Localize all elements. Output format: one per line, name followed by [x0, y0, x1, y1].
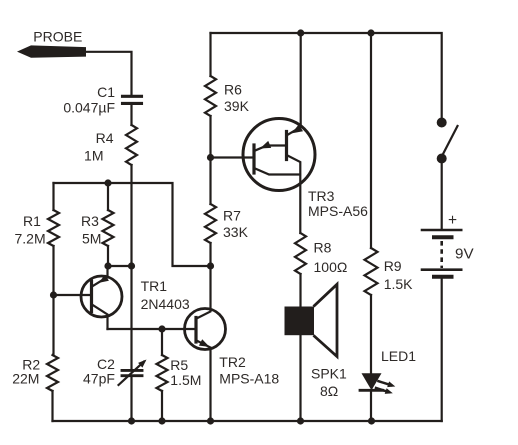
capacitor C2 arrow (variable) [119, 362, 145, 386]
resistor R5 [157, 355, 168, 391]
wire battery to ground rail [441, 279, 443, 421]
TR3 first emitter arrow [260, 141, 271, 149]
junction dot R4 bottom / C2 [128, 262, 135, 269]
svg-text:R9: R9 [384, 258, 402, 274]
wire R3 line [107, 183, 109, 266]
wire C1 to R4 [130, 105, 132, 125]
TR1 base bar [90, 281, 93, 312]
svg-text:47pF: 47pF [83, 370, 115, 386]
junction dot top rail TR3 [297, 29, 304, 36]
junction dot R3 bottom / TR1 emitter [104, 262, 111, 269]
resistor R9 [365, 248, 378, 295]
transistor TR2 body [185, 309, 226, 350]
svg-text:1.5M: 1.5M [170, 372, 201, 388]
junction dot R5 top [158, 325, 165, 332]
svg-text:R4: R4 [96, 130, 114, 146]
TR2 collector lead [197, 266, 211, 319]
LED1 light arrow 2 [376, 388, 389, 392]
TR1 collector lead [92, 305, 108, 330]
svg-text:1.5K: 1.5K [384, 276, 413, 292]
svg-text:5M: 5M [82, 231, 101, 247]
resistor R8 [295, 233, 306, 274]
resistor R6 [205, 76, 216, 116]
wire R4 down to node (crosses rail) [130, 165, 132, 266]
switch contact upper [437, 118, 447, 128]
TR3 first emitter to second base [254, 146, 285, 152]
junction dot ground LED [368, 417, 375, 424]
LED1 cathode bar [360, 389, 383, 392]
battery plate 2 (short) [434, 235, 452, 239]
junction dot R3 top [104, 179, 111, 186]
battery plate 3 (long) [422, 268, 461, 271]
junction dot ground C2 [128, 417, 135, 424]
svg-text:TR2: TR2 [219, 354, 246, 370]
junction dot ground speaker [297, 417, 304, 424]
wire top supply rail [211, 33, 442, 118]
battery dashed middle [440, 241, 443, 268]
TR3 first base bar [252, 145, 255, 173]
wire middle line R6/R7 [209, 33, 211, 266]
LED1 diode triangle [362, 373, 382, 390]
TR3 second collector lead down [287, 155, 301, 233]
svg-text:22M: 22M [12, 370, 39, 386]
junction dot TR3 base branch [207, 154, 214, 161]
TR3 second emitter lead [287, 33, 301, 136]
svg-text:SPK1: SPK1 [311, 365, 347, 381]
battery plate 4 (short) [434, 275, 452, 279]
LED1 light arrow 1 [379, 381, 392, 385]
svg-text:MPS-A56: MPS-A56 [308, 203, 368, 219]
speaker SPK1 cone [315, 284, 338, 356]
switch contact lower [437, 154, 447, 164]
svg-text:8Ω: 8Ω [320, 383, 338, 399]
svg-text:R1: R1 [23, 213, 41, 229]
junction dot top rail R9 [367, 29, 374, 36]
capacitor C1 [123, 96, 142, 103]
resistor R1 [48, 210, 59, 246]
svg-text:0.047µF: 0.047µF [63, 99, 115, 115]
wire speaker to ground rail [299, 335, 301, 421]
wire R8 to speaker [299, 274, 301, 307]
junction dot ground R5 [158, 417, 165, 424]
wire TR1 collector to TR2 base [108, 328, 196, 330]
resistor R3 [103, 210, 114, 246]
svg-text:7.2M: 7.2M [15, 231, 46, 247]
wire switch to battery [441, 160, 443, 229]
svg-text:R8: R8 [314, 240, 332, 256]
TR3 second emitter arrow [292, 124, 304, 133]
svg-text:R7: R7 [223, 208, 241, 224]
svg-text:R6: R6 [224, 82, 242, 98]
wire node y=266 between R3 and R4 lines [108, 265, 132, 267]
TR3 second base bar [285, 132, 288, 160]
transistor TR3 body (darlington) [243, 119, 315, 191]
TR2 emitter arrow (NPN) [199, 339, 210, 347]
wire bias rail y=183 to R7 bottom [54, 183, 211, 266]
junction dot TR1 base [50, 291, 57, 298]
wire TR3 base lead [211, 156, 253, 158]
probe tip symbol [17, 45, 86, 57]
svg-text:LED1: LED1 [381, 348, 416, 364]
svg-text:C1: C1 [97, 84, 115, 100]
svg-text:39K: 39K [224, 98, 250, 114]
wire probe to C1 [85, 52, 132, 95]
svg-text:TR1: TR1 [141, 278, 168, 294]
TR1 emitter arrow (PNP) [99, 275, 109, 283]
TR2 emitter lead [197, 341, 211, 422]
TR2 base bar [194, 318, 197, 343]
TR3 first collector [254, 168, 300, 175]
speaker SPK1 magnet [285, 307, 315, 336]
TR1 base lead [54, 294, 91, 296]
svg-text:R5: R5 [170, 357, 188, 373]
svg-text:MPS-A18: MPS-A18 [219, 370, 279, 386]
svg-text:2N4403: 2N4403 [141, 296, 190, 312]
battery B1 positive plate [422, 229, 461, 232]
svg-text:R3: R3 [81, 213, 99, 229]
svg-text:9V: 9V [455, 246, 474, 263]
resistor R2 [47, 355, 58, 391]
wire C2 node down [130, 266, 132, 369]
svg-text:TR3: TR3 [308, 188, 335, 204]
resistor R4 [126, 125, 137, 165]
TR1 emitter lead [92, 266, 108, 287]
svg-text:100Ω: 100Ω [314, 259, 348, 275]
junction dot R7 bottom / TR2 collector [207, 262, 214, 269]
wire C2 to ground rail [130, 377, 132, 421]
wire R9/LED line from top rail [370, 33, 372, 421]
svg-text:PROBE: PROBE [33, 29, 82, 45]
capacitor C2 plates [122, 370, 142, 375]
wire ground rail [53, 420, 442, 422]
transistor TR1 body [81, 276, 122, 317]
switch S1 lever [443, 126, 458, 155]
wire R5 line [161, 329, 163, 421]
svg-text:+: + [448, 212, 457, 229]
junction dot ground TR2 emitter [207, 417, 214, 424]
svg-text:1M: 1M [84, 148, 103, 164]
wire R1 line [53, 183, 54, 421]
resistor R7 [205, 204, 216, 243]
svg-text:33K: 33K [223, 224, 249, 240]
